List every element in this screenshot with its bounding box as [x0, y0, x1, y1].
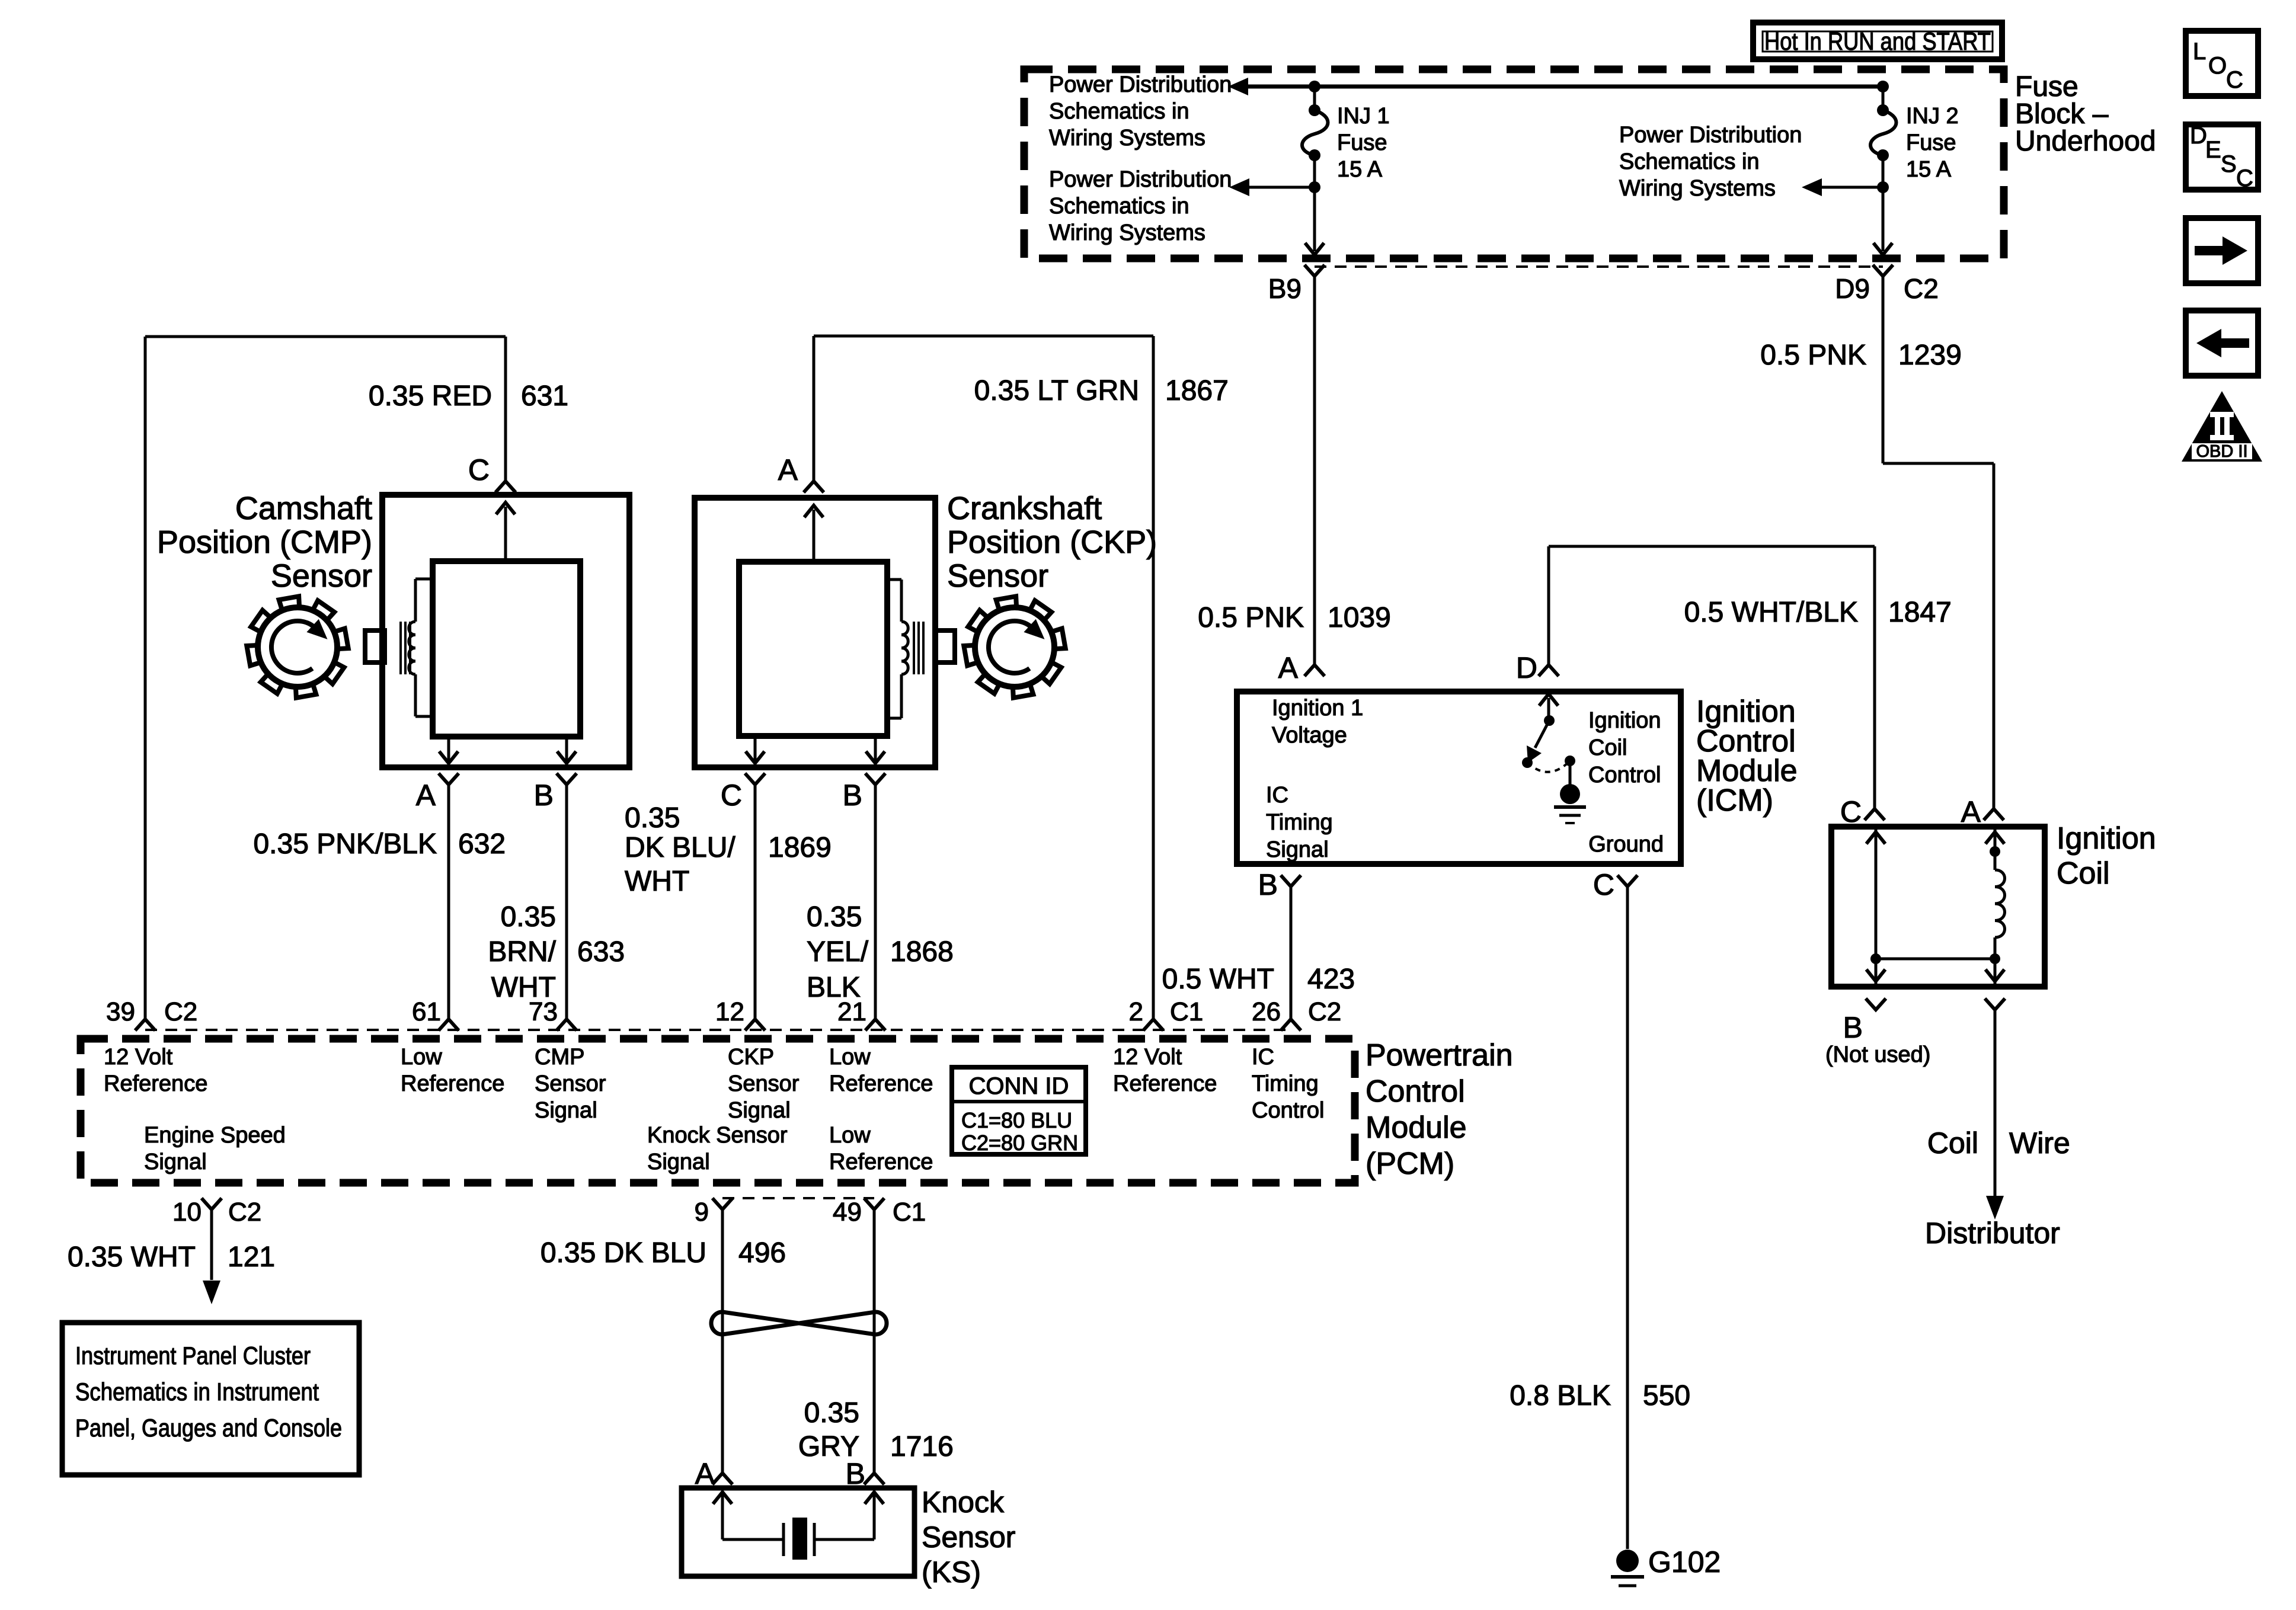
connector B9 chevron [1304, 265, 1325, 276]
connector PCM 2 chevron [1143, 1019, 1163, 1030]
svg-text:0.35 LT GRN: 0.35 LT GRN [974, 375, 1139, 406]
ICM box [1237, 692, 1681, 864]
wire ICM C to G102 [1626, 886, 1629, 1549]
svg-text:12 Volt: 12 Volt [1113, 1045, 1182, 1070]
connector CMP A chevron [439, 773, 459, 785]
svg-text:(KS): (KS) [922, 1555, 981, 1589]
svg-text:Camshaft: Camshaft [235, 491, 372, 526]
wire CKP A riser [813, 336, 816, 481]
svg-text:Schematics in: Schematics in [1049, 99, 1189, 124]
svg-text:Coil: Coil [1588, 735, 1627, 760]
svg-text:Signal: Signal [728, 1098, 791, 1123]
svg-text:0.35: 0.35 [625, 802, 680, 834]
wire INJ2 below fuse [1882, 155, 1885, 187]
icon DESC box [2186, 123, 2258, 191]
ground G102 symbol [1616, 1550, 1639, 1572]
svg-text:0.35 WHT: 0.35 WHT [68, 1241, 196, 1273]
wire INJ1 below fuse [1313, 155, 1316, 187]
CMP mounting tab [365, 630, 385, 662]
CMP internal bottom arrows [447, 737, 450, 763]
ICM internal switch arrow [1547, 698, 1550, 719]
svg-text:Wire: Wire [2009, 1126, 2070, 1160]
svg-text:B: B [534, 779, 554, 812]
svg-text:CONN ID: CONN ID [969, 1073, 1069, 1099]
svg-text:0.5 PNK: 0.5 PNK [1760, 340, 1866, 371]
svg-text:73: 73 [529, 997, 558, 1026]
connector ICM C chevron [1617, 875, 1638, 886]
PCM internal labels row2 [144, 1123, 933, 1174]
svg-text:0.5 PNK: 0.5 PNK [1198, 602, 1304, 633]
wire INJ1 to box bottom [1313, 187, 1316, 251]
KS internal wire A [721, 1494, 724, 1539]
switch top contact [1544, 715, 1555, 726]
svg-text:Schematics in: Schematics in [1049, 194, 1189, 219]
CKP sensor outer box [695, 498, 935, 767]
svg-text:B: B [1258, 868, 1278, 901]
connector coil B chevron (not used) [1866, 998, 1886, 1010]
svg-text:15 A: 15 A [1906, 157, 1952, 182]
svg-text:1868: 1868 [890, 936, 954, 968]
svg-text:1716: 1716 [890, 1431, 954, 1462]
svg-text:0.5 WHT/BLK: 0.5 WHT/BLK [1684, 597, 1858, 628]
node INJ2 branch [1877, 181, 1889, 193]
svg-text:Power Distribution: Power Distribution [1049, 167, 1232, 192]
switch right contact [1565, 756, 1575, 766]
svg-text:Crankshaft: Crankshaft [947, 491, 1102, 526]
label Ignition Control Module (ICM) [1696, 694, 1798, 818]
wire CKP B to PCM 21 [874, 785, 877, 1019]
svg-text:WHT: WHT [625, 866, 689, 897]
svg-text:C2: C2 [1904, 273, 1939, 304]
svg-text:Reference: Reference [1113, 1071, 1217, 1096]
icon left-arrow box [2186, 311, 2258, 376]
svg-text:(PCM): (PCM) [1366, 1147, 1454, 1181]
svg-text:9: 9 [695, 1198, 709, 1227]
label Powertrain Control Module (PCM) [1366, 1038, 1513, 1181]
svg-text:Reference: Reference [401, 1071, 504, 1096]
svg-text:A: A [1278, 651, 1299, 684]
svg-text:(ICM): (ICM) [1696, 783, 1773, 818]
wire INJ2 to box bottom [1882, 187, 1885, 251]
svg-text:Position (CMP): Position (CMP) [157, 524, 372, 560]
svg-text:1867: 1867 [1165, 375, 1229, 406]
connector CMP B chevron [557, 773, 577, 785]
svg-text:C1: C1 [893, 1198, 926, 1227]
svg-text:633: 633 [577, 936, 625, 968]
svg-text:C: C [468, 453, 490, 486]
svg-text:INJ 2: INJ 2 [1906, 104, 1959, 129]
svg-text:INJ 1: INJ 1 [1337, 104, 1390, 129]
svg-text:Knock: Knock [922, 1486, 1005, 1519]
CMP sensor outer box [382, 495, 629, 767]
wire B9 to ICM A [1313, 276, 1316, 665]
KS piezo element [722, 1538, 784, 1541]
wire PCM-39 up-left riser [144, 337, 147, 1019]
svg-text:Ground: Ground [1588, 832, 1664, 857]
knock sensor box [682, 1488, 914, 1576]
svg-text:Module: Module [1366, 1110, 1467, 1145]
label INJ 2 Fuse 15 A [1906, 104, 1959, 182]
connector PCM 73 chevron [557, 1019, 577, 1030]
connector PCM 61 chevron [439, 1019, 459, 1030]
wire CMP C drop [504, 337, 507, 481]
label power distribution schematics 3 [1619, 123, 1802, 201]
label INJ 1 Fuse 15 A [1337, 104, 1390, 182]
svg-text:G102: G102 [1648, 1545, 1721, 1579]
switch left contact [1522, 757, 1533, 768]
svg-text:0.35: 0.35 [501, 901, 556, 933]
svg-text:1869: 1869 [768, 832, 832, 863]
connector PCM 39 chevron [135, 1019, 155, 1030]
connector PCM 10 chevron [202, 1198, 222, 1209]
icon LOC box [2186, 31, 2258, 96]
instrument panel cluster box [62, 1323, 359, 1475]
svg-text:BRN/: BRN/ [488, 936, 556, 968]
svg-text:CMP: CMP [535, 1045, 584, 1070]
KS internal wire B [873, 1494, 876, 1539]
connector KS A chevron [712, 1473, 733, 1484]
svg-text:Underhood: Underhood [2015, 126, 2156, 157]
arrow down INJ2 at box exit [1873, 243, 1892, 255]
svg-text:C: C [2226, 67, 2243, 93]
arrow down INJ1 at box exit [1305, 243, 1324, 255]
wire D9 to ignition coil A [1882, 276, 1885, 463]
svg-text:Low: Low [829, 1123, 871, 1148]
svg-text:Sensor: Sensor [922, 1521, 1015, 1554]
svg-text:Low: Low [829, 1045, 871, 1070]
connector D9 chevron [1873, 265, 1893, 276]
svg-text:Ignition: Ignition [2057, 821, 2156, 856]
svg-text:Hot In RUN and START: Hot In RUN and START [1764, 27, 1991, 55]
svg-text:49: 49 [833, 1198, 862, 1227]
label B (Not used) [1825, 1011, 1930, 1067]
svg-text:D9: D9 [1835, 273, 1870, 304]
CKP internal bottom arrows [754, 736, 757, 763]
svg-text:Wiring Systems: Wiring Systems [1049, 220, 1205, 245]
svg-text:C: C [1840, 795, 1862, 828]
svg-text:C: C [1593, 868, 1614, 901]
connector CKP C chevron [745, 773, 765, 785]
label Knock Sensor (KS) [922, 1486, 1015, 1589]
svg-text:121: 121 [228, 1241, 275, 1273]
svg-text:39: 39 [106, 997, 135, 1026]
label 0.35 BRN/WHT 633 [488, 901, 625, 1003]
svg-text:12 Volt: 12 Volt [104, 1045, 173, 1070]
svg-text:C: C [2236, 165, 2253, 191]
CMP gear icon [247, 596, 348, 697]
switch dashed travel arc [1527, 761, 1570, 772]
wire fuse bus horizontal [1247, 85, 1883, 89]
svg-text:Ignition: Ignition [1588, 708, 1661, 733]
svg-text:Sensor: Sensor [535, 1071, 606, 1096]
CMP pickup bracket and coil [409, 579, 433, 716]
Hot In RUN and START box [1753, 23, 2002, 59]
coil primary left wire [1875, 830, 1878, 984]
svg-text:0.35 PNK/BLK: 0.35 PNK/BLK [253, 828, 437, 860]
label power distribution schematics 1 [1049, 72, 1232, 151]
svg-text:0.35: 0.35 [804, 1397, 859, 1429]
CKP pickup bracket and coil [887, 580, 908, 718]
svg-text:Signal: Signal [1266, 837, 1329, 862]
fuse block underhood dashed box [1024, 69, 2004, 258]
CKP gear icon [964, 596, 1065, 697]
svg-text:0.35: 0.35 [807, 901, 862, 933]
PCM internal labels row1 [104, 1045, 1325, 1123]
PCM connector thin dashed line top [145, 1029, 1291, 1031]
svg-text:Powertrain: Powertrain [1366, 1038, 1513, 1073]
svg-text:61: 61 [412, 997, 441, 1026]
svg-text:1039: 1039 [1328, 602, 1391, 633]
connector coil C chevron [1865, 809, 1885, 820]
CMP sensor inner box [433, 561, 580, 737]
svg-text:IC: IC [1266, 783, 1288, 808]
wire branch to left arrow 2 [1248, 186, 1315, 189]
node bus-INJ2 [1877, 81, 1889, 92]
CKP core lines [913, 622, 915, 674]
arrow to power distribution middle [1802, 178, 1822, 196]
svg-text:Instrument Panel Cluster: Instrument Panel Cluster [75, 1342, 311, 1369]
svg-text:10: 10 [172, 1198, 202, 1227]
connector ICM B chevron [1281, 875, 1301, 886]
label Camshaft Position (CMP) Sensor [157, 491, 372, 594]
svg-text:DK BLU/: DK BLU/ [625, 832, 736, 863]
svg-text:D: D [2190, 123, 2207, 149]
svg-text:C1=80 BLU: C1=80 BLU [961, 1108, 1072, 1132]
svg-text:C2: C2 [228, 1198, 261, 1227]
wire CMP C top horizontal [145, 335, 506, 338]
twisted pair symbol [711, 1312, 887, 1334]
svg-text:Reference: Reference [104, 1071, 207, 1096]
svg-text:Sensor: Sensor [947, 558, 1048, 594]
connector PCM 9 chevron [712, 1198, 733, 1209]
wire CKP C to PCM 12 [754, 785, 757, 1019]
ICM internal labels right [1588, 708, 1664, 857]
CMP core lines [399, 622, 402, 674]
svg-text:15 A: 15 A [1337, 157, 1383, 182]
ignition coil box [1831, 827, 2045, 987]
connector CKP A chevron [804, 481, 824, 492]
svg-text:C1: C1 [1170, 997, 1203, 1026]
svg-text:Coil: Coil [1927, 1126, 1978, 1160]
connector ICM D chevron [1539, 665, 1559, 676]
switch blade with arrowhead [1535, 721, 1549, 748]
svg-text:Sensor: Sensor [728, 1071, 800, 1096]
switch ground stem and symbol [1569, 761, 1572, 788]
svg-text:Fuse: Fuse [1906, 130, 1956, 155]
svg-text:12: 12 [715, 997, 744, 1026]
wire ICM B to PCM 26 [1290, 886, 1293, 1019]
wire PCM-2 drop [1152, 336, 1155, 1019]
svg-text:Knock Sensor: Knock Sensor [647, 1123, 788, 1148]
wire PCM 10 to IPC [210, 1209, 213, 1280]
label power distribution schematics 2 [1049, 167, 1232, 245]
PCM connector thin dashed line bottom [722, 1197, 874, 1199]
svg-text:B: B [843, 779, 862, 812]
label Ignition Coil [2057, 821, 2156, 891]
CKP mounting tab [935, 630, 955, 662]
svg-text:C: C [721, 779, 742, 812]
wire PCM 49 to knock sensor B [873, 1209, 876, 1473]
svg-text:C2: C2 [164, 997, 197, 1026]
svg-text:Control: Control [1252, 1098, 1325, 1123]
svg-text:C2: C2 [1308, 997, 1341, 1026]
connector coil A chevron [1984, 809, 2004, 820]
svg-text:A: A [416, 779, 436, 812]
arrow to power distribution top-left [1228, 78, 1248, 95]
svg-text:A: A [1961, 795, 1981, 828]
svg-text:Ignition 1: Ignition 1 [1272, 696, 1363, 721]
svg-text:Reference: Reference [829, 1150, 933, 1174]
wire CKP top horizontal [814, 335, 1153, 338]
connector CMP C chevron [495, 481, 516, 492]
connector ICM A chevron [1304, 665, 1325, 676]
fuse INJ 1 [1309, 104, 1320, 116]
svg-text:0.8 BLK: 0.8 BLK [1510, 1380, 1611, 1411]
ICM internal labels left [1266, 696, 1363, 862]
connector PCM 21 chevron [865, 1019, 885, 1030]
label instrument panel cluster schematics [75, 1342, 342, 1442]
svg-text:E: E [2205, 137, 2221, 163]
svg-text:Control: Control [1588, 763, 1661, 788]
connector PCM 12 chevron [745, 1019, 765, 1030]
label 0.35 GRY 1716 [798, 1397, 954, 1462]
coil wire to distributor [1985, 998, 2005, 1010]
connector dashed line B9-D9 [1315, 265, 1883, 268]
svg-text:Control: Control [1366, 1074, 1465, 1109]
label Fuse Block - Underhood [2015, 71, 2156, 157]
svg-text:C2=80 GRN: C2=80 GRN [961, 1131, 1078, 1155]
connector KS B chevron [864, 1473, 884, 1484]
svg-text:CKP: CKP [728, 1045, 774, 1070]
svg-text:D: D [1516, 651, 1537, 684]
PCM dashed box [81, 1039, 1355, 1183]
svg-text:Signal: Signal [535, 1098, 597, 1123]
connector PCM 26 chevron [1281, 1019, 1301, 1030]
svg-text:Reference: Reference [829, 1071, 933, 1096]
svg-text:A: A [778, 453, 798, 486]
node bus-INJ1 [1309, 81, 1320, 92]
svg-text:YEL/: YEL/ [807, 936, 869, 968]
node INJ1 branch [1309, 181, 1320, 193]
wire CMP A to PCM 61 [447, 785, 450, 1019]
svg-text:Schematics in Instrument: Schematics in Instrument [75, 1378, 319, 1406]
label Crankshaft Position (CKP) Sensor [947, 491, 1157, 594]
svg-text:Wiring Systems: Wiring Systems [1049, 126, 1205, 151]
svg-text:Coil: Coil [2057, 856, 2110, 891]
icon OBD II triangle [2182, 391, 2262, 462]
svg-text:Power Distribution: Power Distribution [1049, 72, 1232, 97]
svg-text:Voltage: Voltage [1272, 723, 1347, 748]
fuse INJ 2 [1877, 104, 1889, 116]
wire INJ2 top stub [1882, 87, 1885, 110]
svg-text:L: L [2193, 39, 2206, 65]
svg-text:21: 21 [837, 997, 866, 1026]
CKP internal wire top arrow [813, 510, 816, 562]
svg-text:Engine Speed: Engine Speed [144, 1123, 286, 1148]
svg-text:Wiring Systems: Wiring Systems [1619, 176, 1776, 201]
svg-text:Signal: Signal [647, 1150, 710, 1174]
svg-text:Timing: Timing [1252, 1071, 1319, 1096]
wire INJ1 top stub [1313, 87, 1316, 110]
label 0.35 YEL/BLK 1868 [807, 901, 954, 1003]
svg-text:1239: 1239 [1898, 340, 1962, 371]
svg-text:0.35 DK BLU: 0.35 DK BLU [541, 1237, 706, 1269]
icon right-arrow box [2186, 218, 2258, 283]
svg-text:550: 550 [1643, 1380, 1690, 1411]
svg-text:0.5 WHT: 0.5 WHT [1162, 964, 1274, 995]
svg-text:Timing: Timing [1266, 810, 1333, 835]
svg-text:O: O [2208, 53, 2227, 79]
svg-text:IC: IC [1252, 1045, 1274, 1070]
svg-text:Sensor: Sensor [271, 558, 372, 594]
svg-text:26: 26 [1252, 997, 1281, 1026]
svg-text:(Not used): (Not used) [1825, 1042, 1930, 1067]
svg-text:0.35 RED: 0.35 RED [369, 380, 492, 412]
CKP sensor inner box [739, 562, 887, 736]
svg-text:B: B [1843, 1011, 1863, 1044]
svg-text:631: 631 [521, 380, 568, 412]
svg-text:Schematics in: Schematics in [1619, 149, 1760, 174]
connector PCM 49 chevron [864, 1198, 884, 1209]
svg-text:2: 2 [1129, 997, 1143, 1026]
svg-text:Signal: Signal [144, 1150, 207, 1174]
svg-text:Panel, Gauges and Console: Panel, Gauges and Console [75, 1414, 342, 1442]
label 0.35 DK BLU/WHT 1869 [625, 802, 832, 897]
svg-text:OBD II: OBD II [2196, 442, 2247, 461]
wire branch to middle arrow [1821, 186, 1883, 189]
svg-text:Fuse: Fuse [1337, 130, 1387, 155]
svg-text:423: 423 [1307, 964, 1355, 995]
arrow to power distribution bottom-left [1229, 178, 1249, 196]
svg-text:Distributor: Distributor [1925, 1217, 2060, 1250]
svg-text:632: 632 [458, 828, 506, 860]
coil winding right wire [1994, 830, 1997, 870]
connector CKP B chevron [865, 773, 885, 785]
CONN ID box [952, 1067, 1086, 1155]
svg-text:1847: 1847 [1888, 597, 1952, 628]
wire PCM 9 to knock sensor A [721, 1209, 724, 1473]
CMP internal wire top arrow [504, 507, 507, 561]
wire CMP B to PCM 73 [565, 785, 568, 1019]
svg-text:Position (CKP): Position (CKP) [947, 524, 1157, 560]
svg-text:S: S [2221, 151, 2237, 177]
svg-text:Power Distribution: Power Distribution [1619, 123, 1802, 148]
wire ICM D to ignition coil C [1547, 546, 1550, 665]
coil internal bottom link [1870, 953, 1881, 964]
svg-text:B9: B9 [1268, 273, 1302, 304]
svg-text:Low: Low [401, 1045, 442, 1070]
svg-text:496: 496 [738, 1237, 786, 1269]
